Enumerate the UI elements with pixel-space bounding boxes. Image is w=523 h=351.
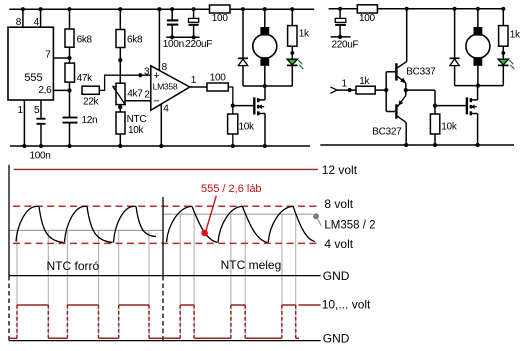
- svg-text:555: 555: [24, 72, 42, 84]
- svg-text:10k: 10k: [128, 125, 145, 136]
- svg-text:10k: 10k: [441, 122, 458, 133]
- svg-text:12 volt: 12 volt: [322, 163, 358, 177]
- svg-text:4: 4: [163, 103, 169, 114]
- svg-text:4k7: 4k7: [127, 89, 143, 100]
- svg-text:4: 4: [34, 17, 40, 28]
- svg-text:100: 100: [212, 13, 229, 24]
- svg-text:100n: 100n: [30, 151, 51, 162]
- svg-text:1: 1: [17, 105, 23, 116]
- svg-text:LM358: LM358: [153, 82, 178, 92]
- svg-text:22k: 22k: [83, 96, 100, 107]
- svg-text:3: 3: [144, 67, 150, 78]
- svg-text:NTC meleg: NTC meleg: [221, 258, 282, 272]
- svg-text:BC337: BC337: [406, 66, 436, 77]
- svg-text:5: 5: [34, 105, 40, 116]
- svg-text:1k: 1k: [359, 76, 370, 87]
- svg-text:1: 1: [191, 75, 197, 86]
- svg-text:100n: 100n: [163, 39, 184, 50]
- svg-text:47k: 47k: [77, 73, 94, 84]
- svg-text:4 volt: 4 volt: [324, 237, 353, 251]
- svg-text:2,6: 2,6: [38, 85, 52, 96]
- svg-text:6k8: 6k8: [127, 34, 143, 45]
- svg-text:1k: 1k: [299, 29, 310, 40]
- svg-text:100: 100: [210, 73, 227, 84]
- svg-text:8: 8: [16, 17, 22, 28]
- svg-text:8 volt: 8 volt: [324, 197, 353, 211]
- svg-text:220uF: 220uF: [185, 39, 212, 50]
- svg-text:GND: GND: [323, 332, 350, 346]
- svg-text:1k: 1k: [510, 29, 521, 40]
- svg-text:12n: 12n: [82, 115, 98, 126]
- svg-text:NTC forró: NTC forró: [47, 259, 100, 273]
- svg-text:GND: GND: [323, 269, 350, 283]
- svg-text:6k8: 6k8: [77, 34, 93, 45]
- svg-text:+: +: [153, 70, 159, 82]
- svg-text:7: 7: [45, 50, 51, 61]
- svg-text:1: 1: [342, 78, 348, 89]
- svg-text:555 / 2,6 láb: 555 / 2,6 láb: [201, 183, 262, 195]
- svg-text:NTC: NTC: [127, 114, 147, 125]
- svg-text:220uF: 220uF: [332, 40, 359, 51]
- svg-text:−: −: [153, 96, 159, 108]
- svg-text:2: 2: [144, 90, 150, 101]
- svg-text:BC327: BC327: [372, 127, 402, 138]
- svg-text:8: 8: [162, 62, 168, 73]
- svg-text:10,... volt: 10,... volt: [322, 298, 371, 312]
- svg-text:10k: 10k: [239, 122, 256, 133]
- svg-text:100: 100: [359, 13, 376, 24]
- svg-text:LM358 / 2: LM358 / 2: [324, 219, 375, 231]
